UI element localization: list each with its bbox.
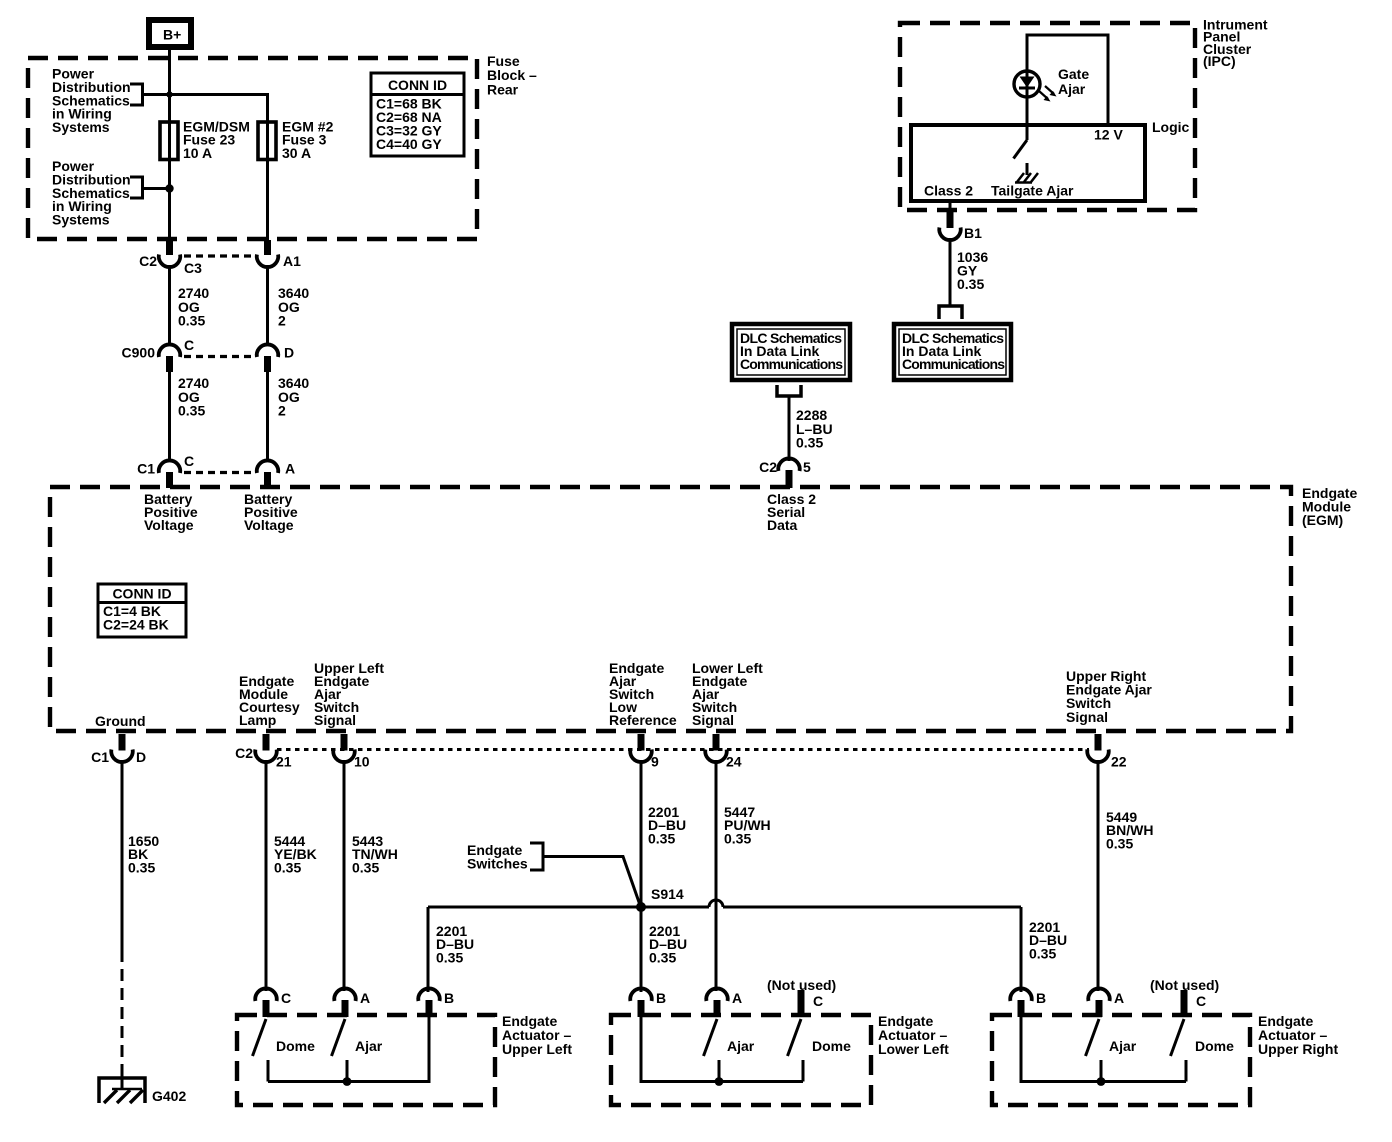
dashed connector link row3 [184, 471, 253, 474]
LL B wire and bottom bus [641, 1015, 803, 1082]
wire Class 2 out [949, 201, 952, 214]
svg-text:D: D [284, 345, 294, 361]
svg-text:Lamp: Lamp [239, 712, 276, 728]
ground G402 [99, 1078, 145, 1103]
wire endgate switches to S914 [543, 857, 640, 906]
svg-text:Upper Left: Upper Left [502, 1041, 572, 1057]
wire 2740 OG lower [168, 372, 171, 462]
connector C900 pin D [257, 344, 279, 357]
svg-text:S914: S914 [651, 886, 684, 902]
connector C1 pin D (ground) [119, 734, 126, 751]
svg-text:C2: C2 [235, 745, 253, 761]
wire 2201 pin 9 lower [640, 907, 643, 992]
svg-text:10 A: 10 A [183, 145, 212, 161]
svg-text:0.35: 0.35 [724, 830, 751, 846]
wire 3640 OG upper [266, 265, 269, 345]
wire 5449 BN/WH [1097, 760, 1100, 991]
UR dome switch [1171, 1019, 1185, 1056]
svg-text:A: A [285, 461, 295, 477]
svg-text:Ajar: Ajar [1058, 81, 1086, 97]
svg-text:A: A [360, 990, 370, 1006]
svg-text:C: C [813, 993, 823, 1009]
UL terminal A [334, 988, 356, 1001]
pin 9 [638, 734, 645, 751]
wire B+ to fuse block [168, 50, 171, 122]
svg-text:0.35: 0.35 [274, 859, 301, 875]
UR ajar switch [1086, 1019, 1100, 1056]
svg-text:C2=24 BK: C2=24 BK [103, 617, 169, 633]
splice S914 [636, 902, 646, 912]
svg-text:C4=40 GY: C4=40 GY [376, 136, 442, 152]
connector C2 (C3) pin [166, 240, 173, 255]
svg-text:B: B [444, 990, 454, 1006]
svg-text:B: B [656, 990, 666, 1006]
svg-text:0.35: 0.35 [436, 949, 463, 965]
dashed connector link row1 [184, 254, 253, 257]
svg-text:Switches: Switches [467, 856, 528, 872]
connector C2 pin 5 [778, 458, 800, 471]
endgate actuator lower left box [611, 1015, 871, 1105]
endgate actuator upper right box [992, 1015, 1250, 1105]
svg-text:Signal: Signal [1066, 709, 1108, 725]
svg-text:0.35: 0.35 [649, 949, 676, 965]
wire 5444 YE/BK [265, 760, 268, 991]
DLC schematics box left [732, 324, 850, 380]
svg-text:0.35: 0.35 [1029, 945, 1056, 961]
wire fuse 23 down [168, 160, 171, 241]
svg-text:Ajar: Ajar [355, 1038, 383, 1054]
svg-text:Dome: Dome [1195, 1038, 1234, 1054]
svg-text:Systems: Systems [52, 212, 110, 228]
fuse EGM #2 Fuse 3 30 A [258, 122, 276, 160]
svg-text:12 V: 12 V [1094, 127, 1123, 143]
tailgate ajar switch [1014, 140, 1028, 159]
connector C1 pin C [159, 460, 181, 473]
wire 2201 pin 9 upper [640, 760, 643, 903]
svg-text:2: 2 [278, 403, 286, 419]
wire 5443 TN/WH [343, 760, 346, 991]
wire 2201 to upper left B [427, 907, 430, 992]
svg-text:0.35: 0.35 [128, 859, 155, 875]
UR B wire and bottom bus [1021, 1015, 1186, 1082]
UL terminal B [418, 988, 439, 1001]
LED indicator Gate Ajar [1014, 71, 1040, 97]
svg-text:(EGM): (EGM) [1302, 512, 1343, 528]
svg-text:Gate: Gate [1058, 66, 1089, 82]
svg-text:C2: C2 [759, 459, 777, 475]
UR terminal B [1010, 988, 1032, 1001]
svg-text:0.35: 0.35 [178, 313, 205, 329]
LL terminal A [706, 988, 728, 1001]
wire LED feed loop [1027, 35, 1108, 125]
svg-text:21: 21 [276, 754, 292, 770]
chassis ground in logic box [1017, 173, 1038, 182]
svg-text:C900: C900 [122, 345, 156, 361]
svg-text:Lower Left: Lower Left [878, 1041, 949, 1057]
UR terminal A [1088, 988, 1110, 1001]
svg-text:C: C [184, 337, 194, 353]
svg-text:Voltage: Voltage [144, 517, 194, 533]
connector C900 pin C [159, 344, 181, 357]
svg-text:0.35: 0.35 [796, 435, 823, 451]
svg-text:Communications: Communications [740, 356, 843, 372]
wire 2201 to upper right B [1020, 907, 1023, 992]
svg-text:G402: G402 [152, 1088, 186, 1104]
svg-text:22: 22 [1111, 754, 1127, 770]
CONN ID table fuse block [371, 73, 464, 156]
fuse EGM/DSM Fuse 23 10 A [160, 122, 178, 160]
pin 24 [713, 734, 720, 751]
svg-text:C: C [184, 453, 194, 469]
svg-text:2: 2 [278, 313, 286, 329]
bracket 1 [130, 84, 143, 105]
svg-text:(IPC): (IPC) [1203, 53, 1236, 69]
wire 2288 L-BU [788, 396, 791, 461]
svg-text:Systems: Systems [52, 119, 110, 135]
svg-text:30 A: 30 A [282, 145, 311, 161]
svg-text:A: A [1114, 990, 1124, 1006]
battery feed B+ [149, 20, 191, 47]
svg-text:Signal: Signal [692, 712, 734, 728]
LL dome switch [788, 1019, 802, 1056]
UL terminal C [255, 988, 277, 1001]
svg-text:24: 24 [726, 754, 742, 770]
splice wire horizontal [428, 906, 709, 909]
wire 1650 BK [121, 760, 124, 950]
svg-text:9: 9 [651, 754, 659, 770]
CONN ID table EGM [98, 584, 186, 637]
dotted connector row line [277, 748, 1089, 751]
connector A1 pin [264, 240, 271, 255]
svg-text:0.35: 0.35 [1106, 835, 1133, 851]
svg-text:Dome: Dome [812, 1038, 851, 1054]
svg-text:0.35: 0.35 [178, 403, 205, 419]
svg-text:CONN ID: CONN ID [112, 586, 171, 602]
svg-text:0.35: 0.35 [352, 859, 379, 875]
svg-text:Logic: Logic [1152, 119, 1190, 135]
svg-text:Voltage: Voltage [244, 517, 294, 533]
LED arrows [1039, 91, 1048, 99]
LL terminal B [630, 988, 652, 1001]
UL dome switch [253, 1019, 267, 1056]
connector C2 pin 21 [263, 734, 270, 751]
svg-text:D: D [136, 749, 146, 765]
DLC schematics box right [894, 324, 1011, 380]
LL ajar switch [704, 1019, 718, 1056]
wire LED to switch [1026, 97, 1029, 140]
svg-text:Ground: Ground [95, 713, 146, 729]
svg-text:Ajar: Ajar [727, 1038, 755, 1054]
wire 5447 PU/WH [715, 760, 718, 991]
fuse block rear dashed box [28, 58, 477, 239]
connector C1 pin A [257, 460, 279, 473]
svg-text:Reference: Reference [609, 712, 677, 728]
wire fuse 3 down [266, 160, 269, 241]
wire hop over 5447 [709, 900, 723, 907]
svg-text:Ajar: Ajar [1109, 1038, 1137, 1054]
svg-text:10: 10 [354, 754, 370, 770]
svg-text:Upper Right: Upper Right [1258, 1041, 1338, 1057]
wire to EGM#2 fuse [143, 93, 268, 96]
svg-text:C3: C3 [184, 260, 202, 276]
bracket to DLC schematics [939, 306, 962, 319]
instrument panel cluster dashed box [900, 23, 1195, 210]
bracket 2 [130, 177, 143, 198]
svg-text:C1: C1 [137, 461, 155, 477]
logic box [911, 125, 1145, 201]
svg-text:Tailgate Ajar: Tailgate Ajar [991, 183, 1074, 199]
dashed connector link row2 [184, 355, 253, 358]
endgate switches bracket [530, 843, 543, 870]
wire to B+ node [143, 187, 170, 190]
svg-text:C: C [1196, 993, 1206, 1009]
svg-text:C2: C2 [139, 253, 157, 269]
connector B1 [947, 212, 954, 228]
wire 1036 GY [949, 238, 952, 305]
svg-text:0.35: 0.35 [648, 830, 675, 846]
wire 3640 OG lower [266, 372, 269, 462]
svg-text:Class 2: Class 2 [924, 183, 973, 199]
wire 2740 OG upper [168, 265, 171, 345]
svg-text:B: B [1036, 990, 1046, 1006]
pin 10 [341, 734, 348, 751]
svg-text:Communications: Communications [902, 356, 1005, 372]
endgate actuator upper left box [237, 1015, 495, 1105]
bracket below DLC box [777, 385, 801, 396]
svg-text:B1: B1 [964, 225, 982, 241]
svg-text:C1: C1 [91, 749, 109, 765]
svg-text:5: 5 [803, 459, 811, 475]
svg-text:Data: Data [767, 517, 798, 533]
junction at B+ wire [166, 91, 172, 97]
svg-text:A1: A1 [283, 253, 301, 269]
svg-text:Dome: Dome [276, 1038, 315, 1054]
pin 22 [1095, 734, 1102, 751]
svg-text:A: A [732, 990, 742, 1006]
svg-text:Signal: Signal [314, 712, 356, 728]
svg-text:C: C [281, 990, 291, 1006]
svg-text:B+: B+ [163, 27, 181, 43]
UL B wire and bottom bus [268, 1015, 429, 1082]
endgate module dashed box [50, 487, 1291, 731]
svg-text:Rear: Rear [487, 81, 519, 97]
svg-text:CONN ID: CONN ID [388, 77, 447, 93]
svg-text:0.35: 0.35 [957, 276, 984, 292]
UL ajar switch [332, 1019, 346, 1056]
